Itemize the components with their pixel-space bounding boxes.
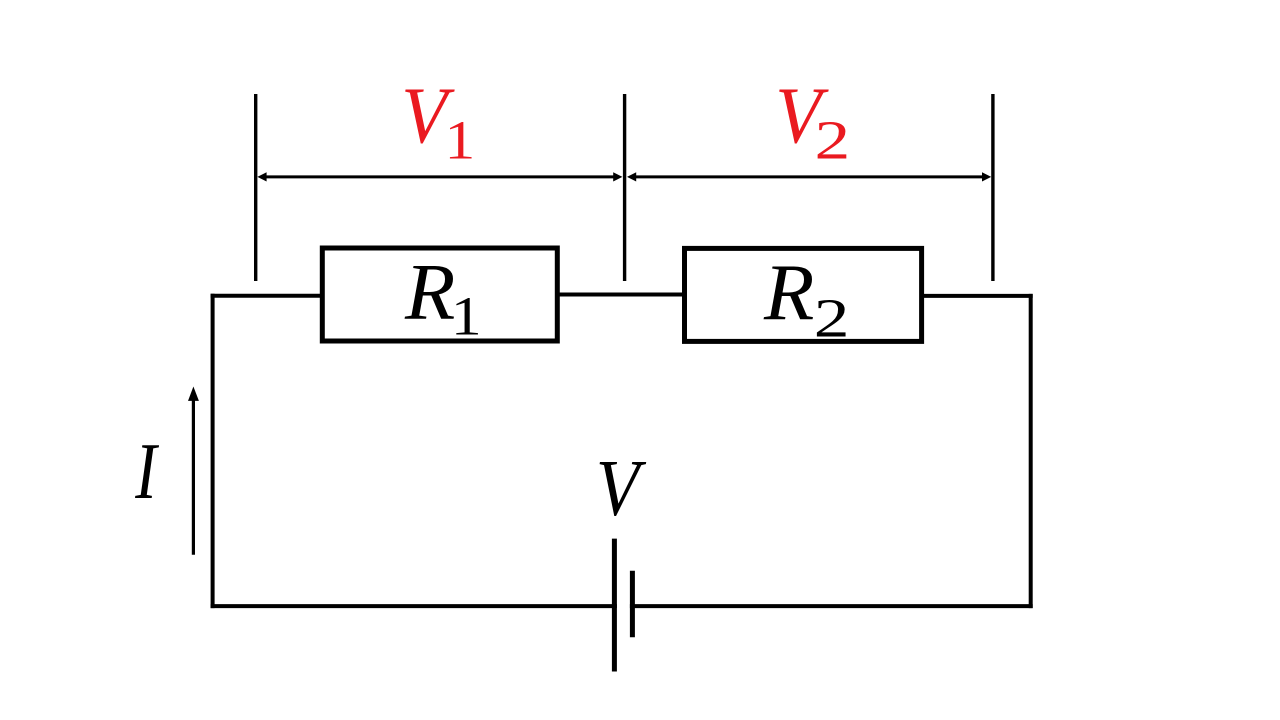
- svg-text:V: V: [596, 445, 647, 533]
- svg-text:1: 1: [445, 109, 476, 170]
- svg-text:R: R: [763, 248, 814, 337]
- svg-text:I: I: [134, 426, 159, 515]
- svg-text:1: 1: [451, 286, 482, 347]
- svg-text:R: R: [404, 248, 455, 337]
- svg-text:2: 2: [815, 109, 851, 170]
- svg-text:2: 2: [814, 287, 850, 348]
